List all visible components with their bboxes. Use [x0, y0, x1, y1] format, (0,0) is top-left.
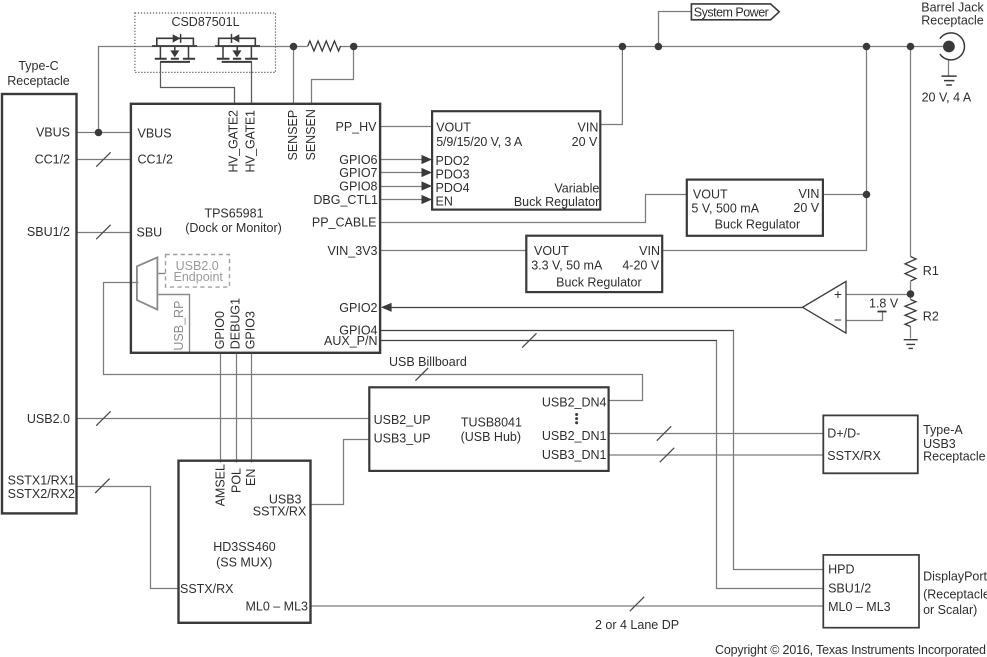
svg-text:Buck Regulator: Buck Regulator	[556, 275, 641, 289]
svg-text:Endpoint: Endpoint	[174, 270, 224, 284]
svg-text:CC1/2: CC1/2	[35, 153, 70, 167]
svg-text:SSTX/RX: SSTX/RX	[827, 449, 881, 463]
svg-text:SSTX/RX: SSTX/RX	[180, 582, 234, 596]
svg-text:POL: POL	[230, 468, 244, 493]
svg-text:VOUT: VOUT	[534, 244, 569, 258]
svg-text:VIN: VIN	[578, 120, 599, 134]
svg-text:SBU1/2: SBU1/2	[27, 225, 70, 239]
svg-text:DEBUG1: DEBUG1	[229, 298, 243, 349]
svg-text:20 V, 4 A: 20 V, 4 A	[922, 91, 972, 105]
svg-text:VIN: VIN	[799, 187, 820, 201]
svg-text:AUX_P/N: AUX_P/N	[324, 334, 378, 348]
svg-text:R2: R2	[923, 310, 939, 324]
svg-text:1.8 V: 1.8 V	[869, 296, 899, 310]
svg-text:DBG_CTL1: DBG_CTL1	[313, 193, 378, 207]
svg-text:CSD87501L: CSD87501L	[171, 15, 239, 29]
svg-text:GPIO8: GPIO8	[339, 180, 377, 194]
svg-text:SSTX/RX: SSTX/RX	[253, 504, 307, 518]
svg-text:SSTX2/RX2: SSTX2/RX2	[8, 487, 75, 501]
svg-text:Receptacle: Receptacle	[7, 74, 70, 88]
svg-text:Receptacle: Receptacle	[923, 449, 986, 463]
svg-text:Type-C: Type-C	[18, 59, 58, 73]
svg-text:AMSEL: AMSEL	[213, 464, 227, 506]
svg-text:(USB Hub): (USB Hub)	[461, 430, 521, 444]
svg-text:GPIO6: GPIO6	[339, 153, 377, 167]
svg-text:CC1/2: CC1/2	[138, 153, 173, 167]
svg-text:GPIO3: GPIO3	[243, 311, 257, 349]
svg-text:PP_CABLE: PP_CABLE	[312, 216, 377, 230]
svg-text:USB3_UP: USB3_UP	[374, 432, 431, 446]
svg-text:Type-A: Type-A	[923, 423, 963, 437]
svg-text:USB_RP: USB_RP	[172, 301, 186, 351]
svg-text:VBUS: VBUS	[138, 126, 172, 140]
svg-text:SBU1/2: SBU1/2	[828, 582, 871, 596]
svg-text:Receptacle: Receptacle	[921, 13, 984, 27]
svg-text:GPIO2: GPIO2	[339, 301, 377, 315]
svg-text:TUSB8041: TUSB8041	[461, 416, 522, 430]
svg-text:(SS MUX): (SS MUX)	[216, 556, 272, 570]
svg-text:HD3SS460: HD3SS460	[213, 540, 276, 554]
svg-text:SENSEP: SENSEP	[286, 110, 300, 161]
svg-text:USB Billboard: USB Billboard	[389, 355, 467, 369]
svg-text:5 V, 500 mA: 5 V, 500 mA	[691, 202, 759, 216]
svg-text:2 or 4 Lane DP: 2 or 4 Lane DP	[595, 618, 679, 632]
svg-text:PDO4: PDO4	[436, 181, 470, 195]
svg-text:VOUT: VOUT	[436, 120, 471, 134]
svg-text:GPIO7: GPIO7	[339, 166, 377, 180]
svg-text:VOUT: VOUT	[693, 188, 728, 202]
svg-text:SBU: SBU	[137, 226, 163, 240]
svg-text:D+/D-: D+/D-	[827, 427, 860, 441]
svg-text:Buck Regulator: Buck Regulator	[514, 195, 599, 209]
svg-text:PDO2: PDO2	[436, 154, 470, 168]
svg-text:USB2_DN1: USB2_DN1	[542, 429, 607, 443]
svg-text:SENSEN: SENSEN	[304, 109, 318, 160]
svg-text:USB3_DN1: USB3_DN1	[542, 448, 607, 462]
svg-text:3.3 V, 50 mA: 3.3 V, 50 mA	[531, 258, 603, 272]
svg-text:R1: R1	[923, 264, 939, 278]
svg-text:Buck Regulator: Buck Regulator	[715, 218, 800, 232]
svg-text:5/9/15/20 V, 3 A: 5/9/15/20 V, 3 A	[436, 135, 523, 149]
svg-text:USB2_DN4: USB2_DN4	[542, 395, 607, 409]
svg-text:4-20 V: 4-20 V	[622, 258, 659, 272]
svg-text:Barrel Jack: Barrel Jack	[921, 0, 984, 14]
svg-text:ML0 – ML3: ML0 – ML3	[245, 600, 308, 614]
svg-text:Copyright © 2016, Texas Instru: Copyright © 2016, Texas Instruments Inco…	[715, 643, 986, 657]
svg-text:(Receptacle: (Receptacle	[923, 587, 987, 601]
svg-text:20 V: 20 V	[572, 135, 598, 149]
svg-text:(Dock or Monitor): (Dock or Monitor)	[185, 221, 282, 235]
svg-text:SSTX1/RX1: SSTX1/RX1	[8, 473, 75, 487]
svg-text:−: −	[834, 313, 842, 328]
svg-text:EN: EN	[436, 195, 453, 209]
svg-text:ML0 – ML3: ML0 – ML3	[828, 600, 891, 614]
svg-text:+: +	[834, 287, 842, 302]
svg-text:HPD: HPD	[828, 563, 854, 577]
svg-text:GPIO0: GPIO0	[213, 311, 227, 349]
svg-text:HV_GATE1: HV_GATE1	[243, 110, 257, 173]
svg-text:VIN: VIN	[639, 244, 660, 258]
svg-text:EN: EN	[244, 469, 258, 486]
svg-text:VIN_3V3: VIN_3V3	[327, 244, 377, 258]
svg-text:Variable: Variable	[554, 181, 599, 195]
svg-text:DisplayPort: DisplayPort	[923, 570, 987, 584]
svg-text:or Scalar): or Scalar)	[923, 603, 977, 617]
svg-text:PDO3: PDO3	[436, 168, 470, 182]
svg-text:VBUS: VBUS	[36, 126, 70, 140]
svg-text:USB2.0: USB2.0	[27, 412, 70, 426]
svg-text:PP_HV: PP_HV	[336, 120, 378, 134]
svg-text:System Power: System Power	[694, 5, 769, 19]
svg-text:20 V: 20 V	[793, 201, 819, 215]
svg-text:HV_GATE2: HV_GATE2	[226, 110, 240, 173]
svg-text:TPS65981: TPS65981	[204, 206, 263, 220]
svg-text:USB2_UP: USB2_UP	[374, 413, 431, 427]
